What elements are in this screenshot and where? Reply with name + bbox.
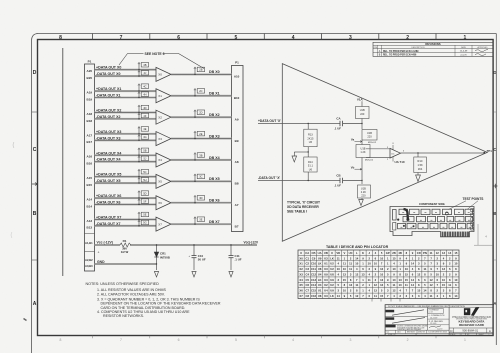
output pull-up resistor network pin 3C ch5 bbox=[194, 174, 205, 182]
svg-text:WT: WT bbox=[467, 334, 470, 336]
coupling capacitor CB .1UF bbox=[334, 174, 347, 188]
svg-text:R14: R14 bbox=[308, 160, 313, 164]
svg-text:X3: X3 bbox=[158, 137, 162, 141]
svg-text:12-4-69: 12-4-69 bbox=[460, 51, 468, 53]
board right pads bbox=[471, 209, 474, 231]
note 3 flag with leader lines bbox=[119, 52, 204, 69]
svg-text:11: 11 bbox=[423, 267, 426, 271]
svg-text:U2: U2 bbox=[330, 267, 334, 271]
svg-text:3E: 3E bbox=[199, 217, 202, 221]
lower bias network U1B 2.2K bbox=[358, 181, 371, 200]
wire -DATA OUT X2 from P1 pin B18 bbox=[87, 115, 156, 123]
svg-text:DESCRIPTION: DESCRIPTION bbox=[451, 306, 466, 308]
zone tick marks top border bbox=[93, 34, 437, 40]
svg-text:4G: 4G bbox=[143, 135, 146, 139]
svg-text:15: 15 bbox=[405, 272, 409, 276]
svg-text:X4: X4 bbox=[299, 278, 303, 282]
svg-text:TP1: TP1 bbox=[487, 149, 493, 153]
svg-text:12: 12 bbox=[392, 289, 396, 293]
svg-text:B: B bbox=[33, 211, 37, 217]
svg-text:▬: ▬ bbox=[451, 226, 453, 228]
svg-text:SYM: SYM bbox=[373, 47, 377, 49]
output pull-up resistor network pin 3E ch7 bbox=[194, 217, 205, 225]
svg-text:10: 10 bbox=[392, 278, 396, 282]
svg-text:14: 14 bbox=[448, 251, 452, 255]
svg-text:11: 11 bbox=[448, 283, 451, 287]
zone tick marks right border bbox=[493, 112, 497, 260]
svg-text:▬: ▬ bbox=[459, 219, 461, 221]
svg-text:R13: R13 bbox=[308, 133, 313, 137]
svg-text:A: A bbox=[493, 301, 496, 306]
svg-text:C: C bbox=[493, 147, 496, 152]
svg-text:U2: U2 bbox=[324, 283, 328, 287]
svg-text:▬: ▬ bbox=[469, 226, 471, 228]
svg-text:10-17-69: 10-17-69 bbox=[430, 318, 437, 320]
pull-up resistor network pin 4B on +input ch0 bbox=[138, 63, 149, 71]
svg-text:B14: B14 bbox=[87, 204, 93, 208]
svg-text:13: 13 bbox=[442, 267, 446, 271]
svg-text:D: D bbox=[493, 70, 496, 75]
input termination resistor R14 bbox=[304, 147, 317, 182]
board zone lines right bbox=[474, 224, 493, 245]
svg-text:C9: C9 bbox=[312, 256, 316, 260]
zone tick marks left border bbox=[32, 112, 38, 260]
output pull-up resistor network pin 3B ch4 bbox=[194, 153, 205, 161]
svg-text:D: D bbox=[450, 329, 452, 333]
svg-text:5B: 5B bbox=[143, 149, 146, 153]
svg-text:-DATA OUT X6: -DATA OUT X6 bbox=[96, 200, 121, 204]
svg-text:-DATA OUT 'X': -DATA OUT 'X' bbox=[258, 176, 280, 180]
svg-text:+DATA OUT X2: +DATA OUT X2 bbox=[96, 108, 121, 112]
svg-text:12: 12 bbox=[430, 278, 434, 282]
svg-text:U3: U3 bbox=[324, 256, 328, 260]
svg-text:A16: A16 bbox=[87, 155, 93, 159]
node Va input bbox=[351, 138, 362, 143]
svg-text:U4: U4 bbox=[318, 283, 322, 287]
output load resistor R1C 1.5K bbox=[414, 152, 427, 175]
svg-text:14: 14 bbox=[423, 289, 427, 293]
svg-text:UC: UC bbox=[391, 153, 395, 155]
svg-text:+DATA OUT X5: +DATA OUT X5 bbox=[96, 173, 121, 177]
power arrow below load resistor bbox=[416, 175, 421, 182]
output wire DB X6 to P1 pin A7 bbox=[171, 199, 239, 207]
svg-text:2.2K: 2.2K bbox=[361, 190, 367, 194]
svg-text:-DATA OUT X1: -DATA OUT X1 bbox=[96, 93, 121, 97]
pull-up resistor network pin 5H on -input ch5 bbox=[138, 177, 149, 183]
svg-text:XD DATA RECEIVER: XD DATA RECEIVER bbox=[287, 205, 319, 209]
notes block bbox=[86, 282, 221, 318]
svg-text:A18: A18 bbox=[87, 112, 93, 116]
svg-text:C11: C11 bbox=[311, 267, 316, 271]
svg-text:220: 220 bbox=[361, 194, 366, 198]
svg-text:2D: 2D bbox=[199, 110, 202, 114]
input bus line bbox=[62, 48, 64, 276]
svg-text:12: 12 bbox=[380, 283, 384, 287]
svg-text:REL. TO PROD PER ECN 4456: REL. TO PROD PER ECN 4456 bbox=[383, 54, 417, 57]
svg-text:10: 10 bbox=[399, 283, 403, 287]
svg-text:± .03: ± .03 bbox=[429, 312, 433, 314]
svg-text:12: 12 bbox=[355, 272, 359, 276]
svg-text:CA: CA bbox=[305, 251, 309, 255]
svg-text:RESISTOR NETWORKS.: RESISTOR NETWORKS. bbox=[103, 314, 144, 318]
svg-text:10: 10 bbox=[405, 267, 409, 271]
svg-text:▬: ▬ bbox=[422, 226, 424, 228]
component side board outline bbox=[390, 202, 474, 237]
svg-text:A15: A15 bbox=[87, 176, 93, 180]
wire -DATA OUT X0 from P1 pin B20 bbox=[87, 72, 156, 80]
svg-text:15: 15 bbox=[392, 256, 396, 260]
pull-up resistor network pin 5E on +input ch7 bbox=[138, 212, 149, 220]
svg-text:11: 11 bbox=[430, 251, 433, 255]
wire -DATA OUT X3 from P1 pin B17 bbox=[87, 136, 156, 144]
svg-text:D: D bbox=[33, 70, 37, 76]
svg-text:▬: ▬ bbox=[431, 219, 433, 221]
svg-text:C4: C4 bbox=[306, 272, 310, 276]
svg-text:15: 15 bbox=[405, 278, 409, 282]
svg-text:UC: UC bbox=[349, 251, 353, 255]
svg-text:REVISIONS: REVISIONS bbox=[425, 42, 440, 46]
svg-text:5H: 5H bbox=[143, 178, 146, 182]
resistor network R1B 1.2K bbox=[356, 140, 374, 181]
svg-text:14: 14 bbox=[411, 278, 415, 282]
svg-text:A0,B0: A0,B0 bbox=[85, 264, 93, 268]
svg-text:3: 3 bbox=[349, 35, 352, 41]
svg-text:-DATA OUT X4: -DATA OUT X4 bbox=[96, 158, 121, 162]
svg-text:C16: C16 bbox=[311, 294, 317, 298]
svg-text:TYPICAL 'X' CIRCUIT: TYPICAL 'X' CIRCUIT bbox=[287, 200, 320, 204]
svg-text:2K4: 2K4 bbox=[418, 167, 423, 171]
output pull-up resistor network pin 2D ch2 bbox=[194, 110, 205, 118]
svg-text:12-1-69: 12-1-69 bbox=[430, 323, 436, 325]
svg-text:GP: GP bbox=[386, 251, 390, 255]
svg-text:U1: U1 bbox=[324, 262, 328, 266]
svg-text:220: 220 bbox=[360, 112, 365, 116]
svg-text:COMPONENT SIDE: COMPONENT SIDE bbox=[419, 202, 445, 206]
svg-text:U6: U6 bbox=[309, 140, 313, 144]
board components bbox=[393, 209, 410, 230]
svg-text:▬: ▬ bbox=[468, 219, 470, 221]
pull-up resistor network pin 4F on -input ch2 bbox=[138, 113, 149, 119]
output pull-up resistor network pin 2C ch1 bbox=[194, 89, 205, 97]
svg-text:X5: X5 bbox=[299, 283, 303, 287]
wire -DATA OUT X4 from P1 pin B16 bbox=[87, 158, 156, 166]
svg-text:5D: 5D bbox=[143, 191, 146, 195]
svg-text:A17: A17 bbox=[87, 133, 93, 137]
svg-text:DB X0: DB X0 bbox=[209, 70, 220, 74]
output pull-up resistor network pin 3D ch6 bbox=[194, 196, 205, 204]
svg-text:+DATA OUT X6: +DATA OUT X6 bbox=[96, 194, 121, 198]
svg-text:C15: C15 bbox=[311, 289, 317, 293]
svg-text:3: 3 bbox=[349, 338, 351, 342]
tolerance column with approvals bbox=[428, 309, 450, 331]
svg-text:7: 7 bbox=[120, 35, 123, 41]
svg-text:MD5-U2: MD5-U2 bbox=[368, 142, 377, 144]
coupling capacitor CA .1UF bbox=[334, 117, 347, 131]
svg-text:5C: 5C bbox=[143, 170, 146, 174]
svg-text:DB X3: DB X3 bbox=[209, 134, 220, 138]
ground arrow termination midpoint bbox=[292, 151, 309, 162]
svg-text:DO NOT SCALE DIMENSIONS — USE: DO NOT SCALE DIMENSIONS — USE FIGURED DI… bbox=[388, 305, 449, 308]
svg-text:U8: U8 bbox=[318, 267, 322, 271]
svg-text:15: 15 bbox=[417, 289, 421, 293]
output pull-up resistor network pin 2B ch0 bbox=[194, 67, 205, 75]
title block frame bbox=[385, 305, 493, 336]
svg-text:U4: U4 bbox=[318, 272, 322, 276]
svg-text:X2: X2 bbox=[158, 115, 162, 119]
svg-text:C3: C3 bbox=[306, 267, 310, 271]
svg-text:U9: U9 bbox=[318, 256, 322, 260]
svg-text:14: 14 bbox=[411, 283, 415, 287]
pull-up resistor network pin 4G on -input ch3 bbox=[138, 135, 149, 141]
line receiver amplifier X0 bbox=[156, 67, 171, 81]
svg-text:1: 1 bbox=[489, 334, 490, 336]
svg-text:MD5-U2: MD5-U2 bbox=[365, 159, 374, 161]
svg-text:U1: U1 bbox=[318, 289, 322, 293]
svg-text:2C: 2C bbox=[199, 89, 202, 93]
wire -DATA OUT X input bbox=[258, 176, 362, 180]
svg-text:A: A bbox=[489, 329, 491, 333]
svg-text:▬: ▬ bbox=[402, 212, 404, 214]
svg-text:B8: B8 bbox=[235, 182, 239, 186]
svg-text:2-4-70: 2-4-70 bbox=[460, 55, 467, 57]
typical circuit caption bbox=[287, 200, 320, 213]
test points label with leaders bbox=[449, 197, 484, 210]
svg-text:6: 6 bbox=[177, 35, 180, 41]
svg-text:13: 13 bbox=[361, 272, 365, 276]
svg-text:B: B bbox=[493, 211, 496, 216]
svg-text:VD: VD bbox=[336, 251, 340, 255]
pull-up resistor network pin 4D on +input ch2 bbox=[138, 105, 149, 113]
svg-text:220: 220 bbox=[367, 135, 372, 139]
svg-text:14: 14 bbox=[411, 262, 415, 266]
svg-text:A14: A14 bbox=[87, 197, 93, 201]
bias resistor network U1B 220 bbox=[356, 107, 370, 125]
zone letters left (D C B A) bbox=[33, 70, 37, 307]
capacitor C11 .1UF bbox=[229, 244, 242, 270]
svg-text:10: 10 bbox=[355, 262, 359, 266]
wire +DATA OUT X3 from P1 pin A17 bbox=[87, 130, 156, 137]
svg-text:X2: X2 bbox=[299, 267, 303, 271]
svg-text:10: 10 bbox=[454, 262, 458, 266]
svg-text:X0: X0 bbox=[299, 256, 303, 260]
table I bottom tick marks bbox=[372, 299, 400, 302]
svg-text:UB: UB bbox=[324, 251, 328, 255]
connector P1 right rail bbox=[232, 61, 244, 232]
svg-text:A9: A9 bbox=[235, 117, 239, 121]
svg-text:X5: X5 bbox=[158, 180, 162, 184]
svg-text:2: 2 bbox=[406, 35, 409, 41]
svg-text:6: 6 bbox=[178, 338, 180, 342]
pull-up resistor network pin 5J on -input ch4 bbox=[138, 156, 149, 162]
svg-text:▬: ▬ bbox=[413, 212, 415, 214]
output wire DB X5 to P1 pin B8 bbox=[171, 177, 239, 185]
input termination resistor R13 bbox=[304, 123, 317, 147]
pull-up resistor network pin 4C on +input ch1 bbox=[138, 84, 149, 92]
svg-text:REL. TO PROD PER ECN 4-1289: REL. TO PROD PER ECN 4-1289 bbox=[383, 50, 419, 53]
svg-text:12: 12 bbox=[349, 283, 353, 287]
wire +DATA OUT X0 from P1 pin A20 bbox=[87, 66, 156, 73]
svg-text:R1: R1 bbox=[123, 239, 127, 243]
svg-text:R1C: R1C bbox=[418, 159, 423, 163]
drawing number row bbox=[449, 328, 493, 333]
pull-up resistor network pin 5C on +input ch5 bbox=[138, 169, 149, 177]
pull-up resistor network pin 4H on -input ch1 bbox=[138, 92, 149, 98]
svg-text:-DATA OUT X0: -DATA OUT X0 bbox=[96, 72, 121, 76]
svg-text:C5: C5 bbox=[306, 278, 310, 282]
svg-text:10: 10 bbox=[436, 272, 440, 276]
table I cell data bbox=[299, 251, 457, 298]
svg-text:U3: U3 bbox=[324, 267, 328, 271]
ground arrow below C10 bbox=[192, 272, 196, 278]
svg-text:C12: C12 bbox=[311, 272, 317, 276]
line receiver amplifier X2 bbox=[156, 110, 171, 124]
svg-text:15: 15 bbox=[442, 283, 446, 287]
svg-text:C1: C1 bbox=[306, 256, 310, 260]
svg-text:B18: B18 bbox=[87, 119, 93, 123]
svg-text:U8: U8 bbox=[318, 294, 322, 298]
svg-text:▬: ▬ bbox=[411, 226, 413, 228]
svg-text:.1 UF: .1 UF bbox=[235, 258, 242, 262]
pull-up resistor network pin 5D on +input ch6 bbox=[138, 191, 149, 199]
svg-text:4E: 4E bbox=[143, 127, 146, 131]
wire +DATA OUT X input bbox=[258, 119, 362, 123]
comparator output wire to TP1 bbox=[401, 149, 493, 154]
svg-text:LK: LK bbox=[318, 262, 322, 266]
svg-text:2E: 2E bbox=[199, 132, 202, 136]
svg-text:4: 4 bbox=[292, 338, 294, 342]
pull-up resistor network pin 5G on -input ch7 bbox=[138, 220, 149, 226]
svg-text:X4: X4 bbox=[158, 158, 162, 162]
svg-text:11: 11 bbox=[349, 262, 352, 266]
svg-text:10: 10 bbox=[368, 262, 372, 266]
ground arrow below C11 bbox=[229, 272, 233, 278]
svg-text:11: 11 bbox=[393, 283, 396, 287]
do not scale header bbox=[388, 305, 493, 308]
svg-text:+DATA OUT X1: +DATA OUT X1 bbox=[96, 87, 121, 91]
svg-text:900-8/WA-01: 900-8/WA-01 bbox=[462, 329, 478, 333]
svg-text:4B: 4B bbox=[143, 63, 146, 67]
svg-text:C: C bbox=[33, 147, 37, 153]
svg-text:U1B: U1B bbox=[361, 146, 366, 150]
svg-text:B13: B13 bbox=[87, 226, 93, 230]
detail view triangle outline bbox=[282, 64, 487, 242]
svg-text:1401: 1401 bbox=[397, 332, 401, 334]
svg-text:B17: B17 bbox=[87, 140, 93, 144]
wire GND from P1 pins A2,B2 A0,B0 bbox=[85, 258, 157, 268]
svg-text:.1 UF: .1 UF bbox=[334, 126, 341, 130]
svg-text:4: 4 bbox=[292, 35, 295, 41]
svg-text:1: 1 bbox=[464, 338, 466, 342]
svg-text:UNLESS OTHERWISE SPECIFIED DIM: UNLESS OTHERWISE SPECIFIED DIMEN- bbox=[397, 326, 428, 328]
wire +DATA OUT X2 from P1 pin A18 bbox=[87, 108, 156, 115]
svg-text:DATE: DATE bbox=[461, 46, 467, 49]
svg-text:2K15: 2K15 bbox=[307, 136, 314, 140]
wire +DATA OUT X1 from P1 pin A19 bbox=[87, 87, 156, 94]
svg-text:X3: X3 bbox=[299, 272, 303, 276]
svg-text:X1: X1 bbox=[158, 94, 162, 98]
svg-text:A: A bbox=[33, 301, 37, 307]
line receiver amplifier X5 bbox=[156, 174, 171, 188]
ground arrow lower bias bbox=[359, 200, 364, 206]
svg-text:2: 2 bbox=[407, 338, 409, 342]
svg-text:4F: 4F bbox=[143, 114, 146, 118]
svg-text:▬: ▬ bbox=[458, 212, 460, 214]
ground arrow below CR1 bbox=[154, 272, 158, 278]
svg-text:B19: B19 bbox=[87, 97, 93, 101]
svg-text:Vb: Vb bbox=[351, 165, 355, 169]
svg-text:2. ALL CAPACITOR VOLTAGES ARE: 2. ALL CAPACITOR VOLTAGES ARE 50V. bbox=[97, 293, 165, 297]
wire Vcc (-12V) bus bbox=[85, 241, 259, 245]
svg-text:+DATA OUT X7: +DATA OUT X7 bbox=[96, 215, 121, 219]
zone numbers bottom (faint) bbox=[60, 338, 466, 342]
zone tick marks bottom border bbox=[93, 336, 437, 339]
svg-text:-DATA OUT X2: -DATA OUT X2 bbox=[96, 115, 121, 119]
svg-text:P1: P1 bbox=[88, 60, 92, 64]
svg-text:B7: B7 bbox=[235, 224, 239, 228]
svg-text:V: V bbox=[344, 251, 346, 255]
svg-text:▬: ▬ bbox=[440, 219, 442, 221]
stray scan mark left margin bbox=[11, 142, 27, 321]
svg-text:2-4: 2-4 bbox=[415, 334, 417, 336]
svg-text:1-6-70: 1-6-70 bbox=[437, 329, 442, 331]
board transistor dots bbox=[397, 212, 448, 227]
svg-text:11: 11 bbox=[405, 283, 408, 287]
resistor R1 390 ohm 1/2W bbox=[120, 239, 131, 254]
svg-text:UA 710: UA 710 bbox=[395, 160, 405, 164]
line receiver amplifier X3 bbox=[156, 132, 171, 146]
svg-text:4H: 4H bbox=[143, 92, 146, 96]
output wire DB X1 to P1 pin B10 bbox=[171, 92, 240, 100]
svg-text:5E: 5E bbox=[143, 213, 146, 217]
svg-text:A13: A13 bbox=[87, 219, 93, 223]
output wire DB X0 to P1 pin A10 bbox=[171, 70, 240, 78]
svg-text:13: 13 bbox=[343, 272, 347, 276]
svg-text:U4: U4 bbox=[324, 289, 328, 293]
bottom strip next assy cells bbox=[385, 330, 493, 336]
svg-text:C8: C8 bbox=[306, 294, 310, 298]
svg-text:RECEIVER CARD: RECEIVER CARD bbox=[459, 323, 485, 327]
signature rows drawn checked approved bbox=[385, 310, 449, 331]
svg-text:3D: 3D bbox=[199, 196, 202, 200]
svg-text:A19: A19 bbox=[87, 90, 93, 94]
svg-text:NOTES: UNLESS OTHERWISE SPECIF: NOTES: UNLESS OTHERWISE SPECIFIED bbox=[86, 282, 160, 286]
svg-text:▬: ▬ bbox=[420, 219, 422, 221]
board IC row 3 bbox=[398, 223, 473, 228]
border frame inner rectangle bbox=[38, 40, 494, 336]
board IC row 2 bbox=[403, 216, 473, 221]
svg-text:+DATA OUT X0: +DATA OUT X0 bbox=[96, 66, 121, 70]
svg-text:U2: U2 bbox=[330, 283, 334, 287]
svg-text:-DATA OUT X5: -DATA OUT X5 bbox=[96, 179, 121, 183]
svg-text:1.5K: 1.5K bbox=[417, 163, 423, 167]
svg-text:▬: ▬ bbox=[468, 212, 470, 214]
svg-text:DB X6: DB X6 bbox=[209, 199, 220, 203]
svg-text:▬: ▬ bbox=[401, 226, 403, 228]
title text bbox=[452, 316, 491, 327]
svg-text:GND: GND bbox=[97, 260, 105, 264]
svg-text:SCALE: SCALE bbox=[450, 333, 456, 336]
svg-text:SHEET: SHEET bbox=[479, 334, 484, 336]
svg-text:A1,B1: A1,B1 bbox=[85, 241, 93, 245]
connector P1 left rail bbox=[85, 60, 95, 272]
wire -DATA OUT X6 from P1 pin B14 bbox=[87, 200, 156, 208]
svg-text:+DATA OUT 'X': +DATA OUT 'X' bbox=[258, 119, 281, 123]
svg-text:DB X1: DB X1 bbox=[209, 92, 220, 96]
svg-text:U9: U9 bbox=[330, 289, 334, 293]
svg-text:.1 UF: .1 UF bbox=[334, 183, 341, 187]
zone numbers top (8-1) bbox=[59, 35, 466, 41]
svg-text:▬: ▬ bbox=[435, 212, 437, 214]
